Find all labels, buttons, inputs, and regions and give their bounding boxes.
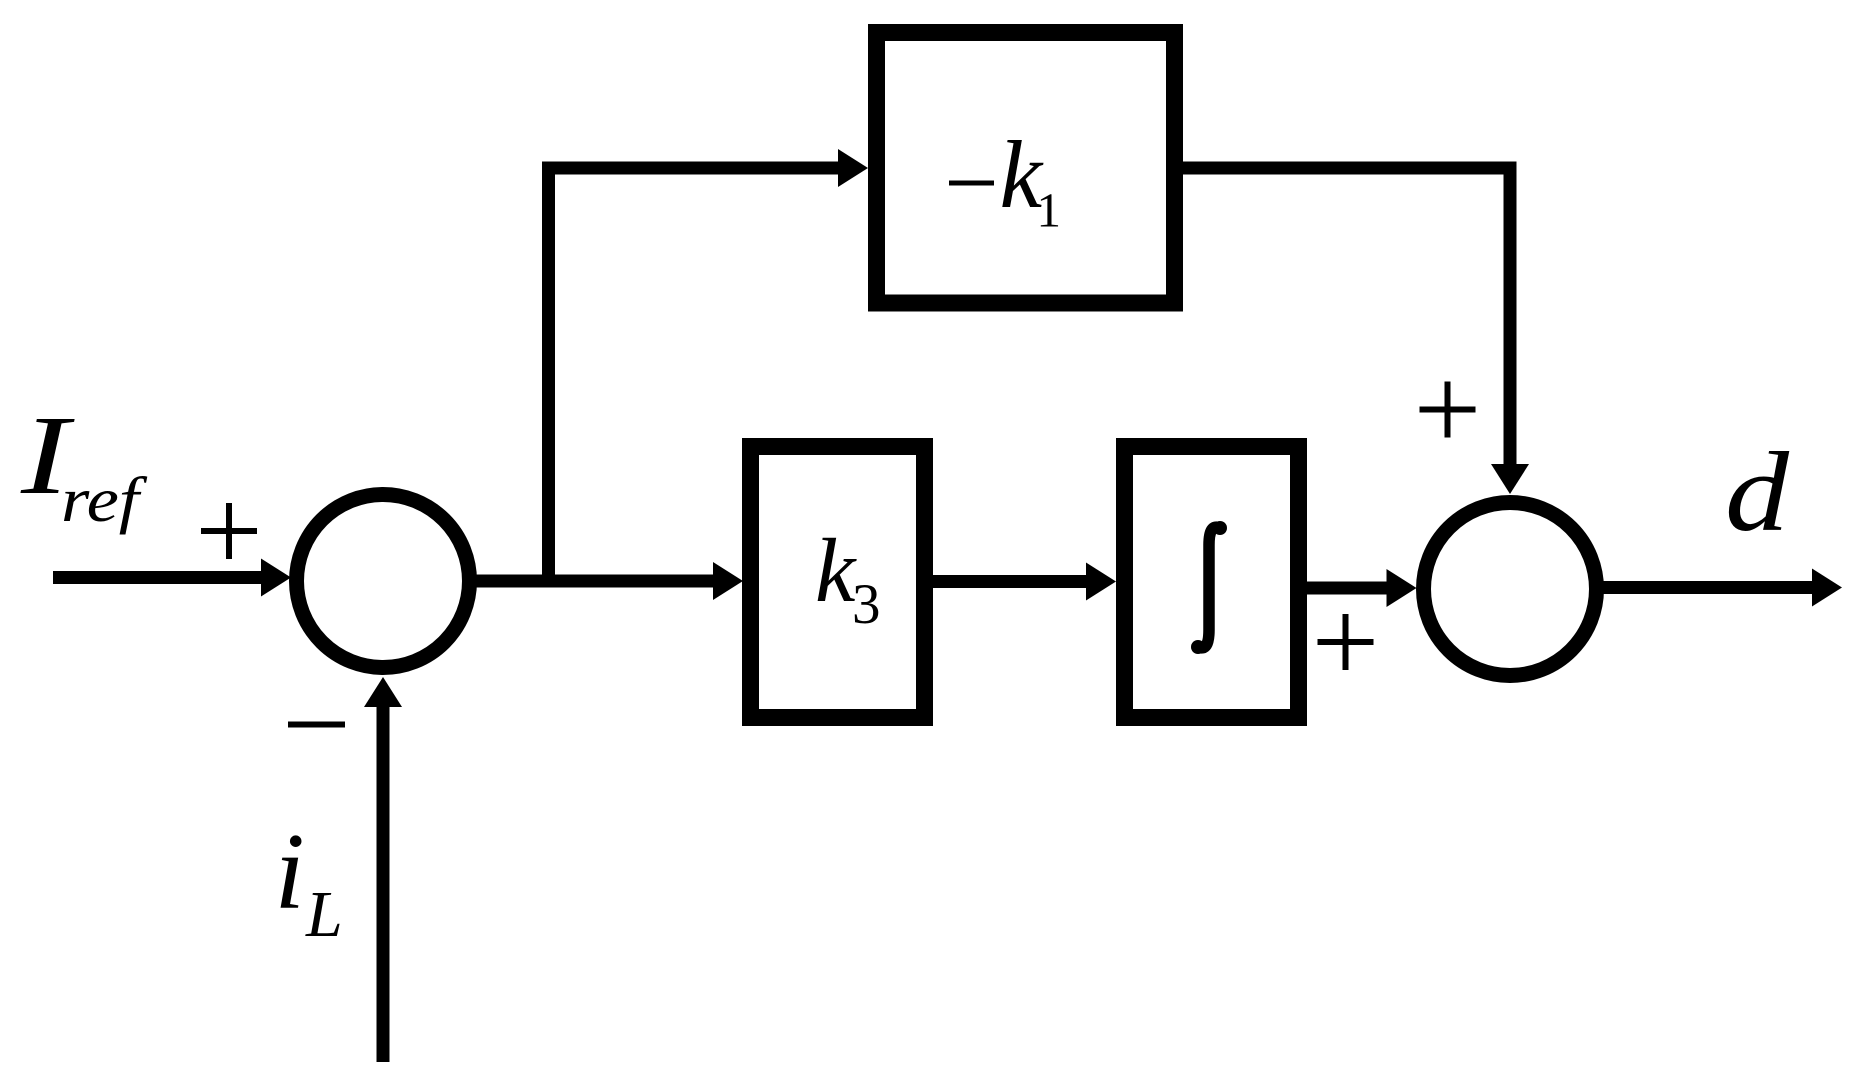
- wire Iref input arrow: [53, 559, 291, 597]
- wire branch up to -k1 block: [542, 149, 868, 588]
- plus sign at left-bottom of summing junction 2: [1318, 614, 1374, 670]
- summing junction S2: [1424, 503, 1597, 676]
- summing junction S1: [297, 495, 470, 668]
- minus sign at summing junction 1: [288, 722, 345, 728]
- node Iref input label: [20, 393, 148, 535]
- wire iL input arrow: [364, 677, 402, 1062]
- wire -k1 output down to summing junction S2: [1183, 162, 1529, 495]
- svg-text:L: L: [305, 878, 343, 951]
- svg-text:i: i: [275, 811, 305, 932]
- block -k1: [877, 33, 1175, 304]
- svg-text:k: k: [815, 520, 857, 621]
- plus sign at top of summing junction 2: [1420, 382, 1476, 438]
- wire k3 to integrator: [933, 563, 1116, 601]
- svg-text:3: 3: [852, 573, 881, 636]
- block integrator: [1125, 447, 1299, 718]
- svg-text:d: d: [1725, 430, 1790, 555]
- label -k1: [949, 121, 1061, 238]
- node iL input label: [275, 811, 343, 951]
- wire output d arrow: [1603, 569, 1842, 607]
- label k3: [815, 520, 881, 636]
- svg-text:1: 1: [1037, 183, 1062, 238]
- plus sign at summing junction 1: [201, 503, 257, 559]
- svg-text:ref: ref: [61, 465, 148, 535]
- label integral sign: [1191, 521, 1227, 654]
- block k3: [751, 447, 925, 718]
- wire S1 to k3 block: [469, 562, 743, 600]
- wire integrator to summing junction S2: [1307, 569, 1417, 607]
